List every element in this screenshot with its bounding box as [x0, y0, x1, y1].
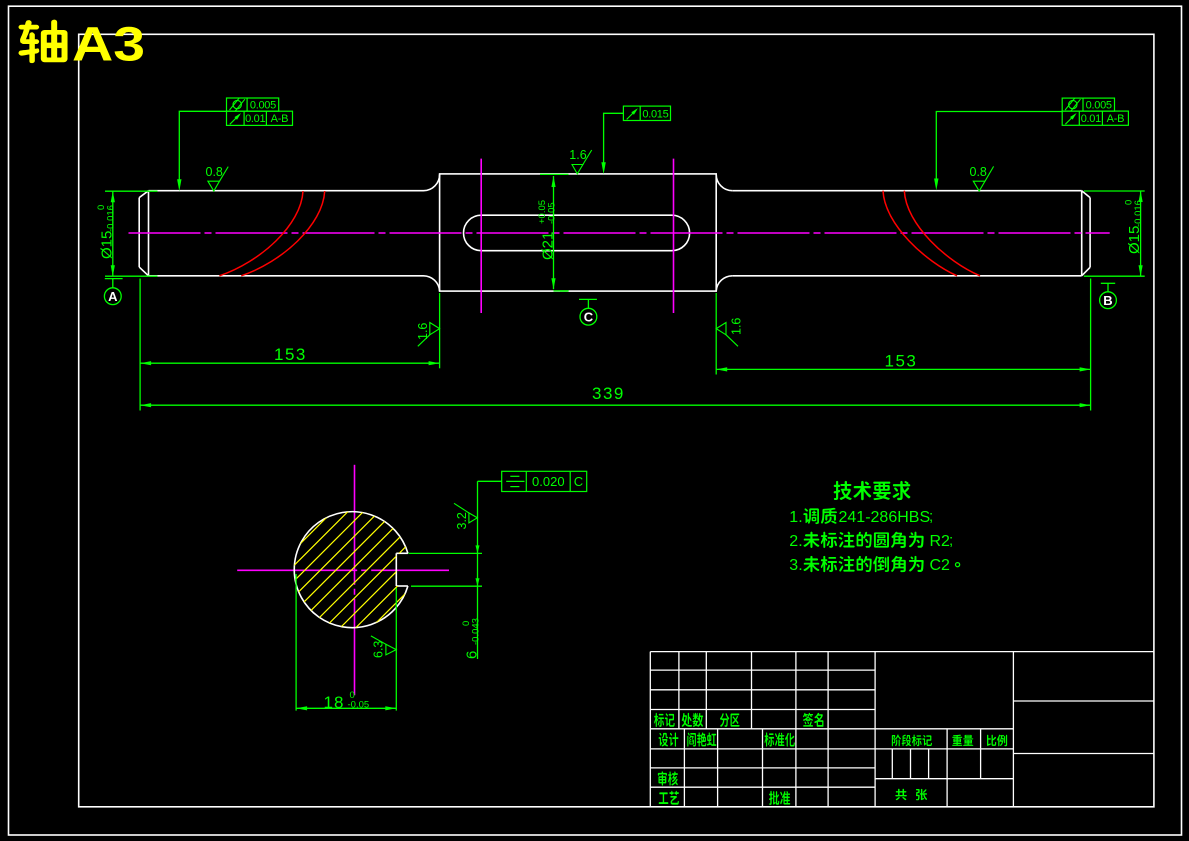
svg-text:C2: C2 — [930, 557, 951, 574]
svg-text:2.: 2. — [789, 533, 802, 550]
surface finish 0.8 left — [208, 181, 220, 191]
dim phi15 left extension top — [105, 190, 158, 192]
keyway top edge — [396, 552, 408, 554]
shaft centerline — [129, 232, 1110, 234]
svg-text:1.6: 1.6 — [730, 318, 744, 335]
svg-text:153: 153 — [274, 345, 307, 364]
tolerance frame right row2 runout 0.01 A-B — [1062, 111, 1128, 125]
dim phi15 left line — [112, 191, 114, 276]
svg-text:C: C — [584, 310, 594, 325]
title block top-grid columns — [678, 652, 680, 729]
tolerance frame symmetry 0.020 C — [502, 471, 587, 491]
svg-text:0.020: 0.020 — [532, 474, 565, 489]
leader right tolerance — [936, 112, 1062, 186]
label 批准 — [769, 791, 790, 805]
label 处数 — [682, 713, 704, 727]
svg-text:R2: R2 — [930, 533, 951, 550]
dim 153 left extension lines — [139, 279, 141, 411]
svg-text:0.01: 0.01 — [1081, 113, 1101, 125]
dim phi21 extension top — [540, 173, 569, 175]
section circle outline with keyway — [294, 512, 408, 628]
datum C symbol — [560, 290, 568, 292]
title block vertical main dividers — [874, 652, 876, 807]
surface finish 1.6 lower right — [716, 323, 726, 335]
shaft right section top line — [732, 190, 1081, 192]
dim phi15 left extension bottom — [105, 275, 158, 277]
dim 153 right — [716, 368, 1090, 370]
dim 339 — [140, 404, 1091, 406]
keyway right center line — [673, 159, 675, 313]
dim 6-0.043 extension lines — [409, 552, 483, 554]
svg-text:;: ; — [949, 532, 953, 549]
fillet top-right — [716, 174, 732, 191]
svg-text:A-B: A-B — [271, 113, 288, 125]
shaft left section bottom line — [149, 275, 424, 277]
svg-text:0.8: 0.8 — [970, 165, 987, 179]
svg-text:339: 339 — [592, 384, 625, 403]
svg-text:6: 6 — [464, 651, 481, 659]
svg-text:A3: A3 — [72, 19, 145, 72]
label 重量 — [952, 735, 973, 746]
left end face — [138, 198, 140, 268]
dim phi21 line — [553, 176, 555, 289]
svg-text:153: 153 — [885, 351, 918, 370]
label 阶段标记 — [892, 734, 932, 746]
dim 153 left — [140, 362, 440, 364]
dim phi15 right extension top — [1084, 190, 1145, 192]
keyway slot (plan view) — [464, 215, 690, 251]
label 审核 — [658, 771, 678, 785]
datum A symbol — [105, 278, 123, 280]
svg-text:Ø15: Ø15 — [1126, 226, 1143, 254]
svg-text:-0.016: -0.016 — [106, 205, 117, 232]
surface finish 0.8 right — [973, 181, 985, 191]
section horizontal centerline — [237, 569, 449, 571]
right chamfer bottom diagonal — [1082, 267, 1090, 276]
surface finish 1.6 top — [572, 165, 583, 174]
title block bottom-grid columns — [683, 729, 685, 807]
svg-text:Ø15: Ø15 — [99, 231, 116, 259]
svg-text:1.6: 1.6 — [569, 148, 586, 162]
title block left horizontals — [650, 669, 875, 671]
dim phi15 right extension bottom — [1084, 275, 1145, 277]
datum B symbol — [1101, 282, 1115, 284]
title block stage-mark small cells — [875, 778, 1013, 780]
fillet bottom-right — [716, 276, 732, 291]
leader middle tolerance — [604, 113, 624, 168]
dim 18 extension lines — [295, 574, 297, 711]
svg-text:-0.05: -0.05 — [348, 700, 370, 711]
dim 153 right extension lines — [715, 293, 717, 375]
svg-text:0.005: 0.005 — [250, 100, 276, 112]
svg-text:Ø21: Ø21 — [540, 232, 557, 260]
section vertical centerline — [354, 465, 356, 695]
title text 轴 — [18, 20, 67, 63]
svg-text:;: ; — [929, 508, 933, 525]
break line left 1 — [219, 191, 303, 276]
right chamfer line — [1081, 191, 1083, 276]
surface finish 1.6 lower left — [430, 323, 440, 335]
keyway bottom edge — [396, 585, 408, 587]
surface finish 3.2 — [469, 513, 477, 523]
label 分区 — [720, 713, 740, 727]
tolerance frame middle runout 0.015 — [623, 106, 670, 120]
right end face — [1089, 198, 1091, 268]
title block outline — [650, 651, 1154, 653]
left chamfer top diagonal — [139, 191, 148, 198]
svg-text:B: B — [1103, 293, 1112, 308]
fillet top-left — [424, 174, 440, 191]
break line left 2 — [241, 191, 324, 276]
surface finish 6.3 — [386, 644, 396, 655]
label 标准化 — [765, 732, 795, 746]
svg-text:0.005: 0.005 — [1086, 100, 1112, 112]
svg-text:0.015: 0.015 — [642, 108, 668, 120]
shaft right section bottom line — [732, 275, 1081, 277]
tolerance frame left row2 runout 0.01 A-B — [227, 111, 293, 125]
dim phi21 extension bottom — [554, 290, 569, 292]
svg-text:0.8: 0.8 — [206, 165, 223, 179]
label 比例 — [987, 735, 1007, 747]
label 设计 — [659, 733, 679, 747]
left chamfer line — [148, 191, 150, 276]
shaft left section top line — [149, 190, 424, 192]
label 工艺 — [659, 791, 679, 805]
technical requirements title — [834, 481, 911, 500]
designer name — [687, 732, 716, 746]
dim phi15 right line — [1140, 191, 1142, 276]
svg-text:1.6: 1.6 — [416, 323, 430, 340]
svg-text:-0.016: -0.016 — [1133, 200, 1144, 227]
label 签名 — [803, 713, 823, 727]
dim 18-0.05 — [296, 707, 396, 709]
svg-text:A: A — [108, 289, 118, 304]
right chamfer top diagonal — [1082, 191, 1090, 198]
label 共 张 — [895, 789, 907, 800]
svg-text:-0.05: -0.05 — [547, 202, 558, 224]
svg-text:3.: 3. — [789, 557, 802, 574]
title block right column horizontals — [1013, 700, 1154, 702]
keyway left center line — [480, 159, 482, 313]
svg-text:-0.043: -0.043 — [471, 618, 482, 645]
leader left tolerance — [179, 111, 226, 185]
svg-text:18: 18 — [324, 693, 345, 712]
svg-text:C: C — [574, 474, 583, 489]
break line right 1 — [883, 191, 957, 276]
shaft center section outline — [440, 174, 717, 291]
fillet bottom-left — [424, 276, 440, 291]
svg-text:A-B: A-B — [1107, 113, 1124, 125]
label 标记 — [654, 713, 674, 727]
keyway flat — [395, 553, 397, 586]
svg-text:241-286HBS: 241-286HBS — [839, 509, 931, 526]
svg-text:6.3: 6.3 — [372, 641, 386, 658]
left chamfer bottom diagonal — [139, 267, 148, 276]
tolerance frame left row1 cylindricity 0.005 — [227, 98, 279, 111]
tolerance frame right row1 cylindricity 0.005 — [1062, 98, 1114, 111]
svg-text:3.2: 3.2 — [455, 512, 469, 529]
svg-text:0.01: 0.01 — [245, 113, 265, 125]
dim 6-0.043 line — [477, 481, 479, 659]
leader 0.020 — [478, 480, 502, 482]
break line right 2 — [904, 191, 980, 276]
svg-text:1.: 1. — [789, 509, 802, 526]
